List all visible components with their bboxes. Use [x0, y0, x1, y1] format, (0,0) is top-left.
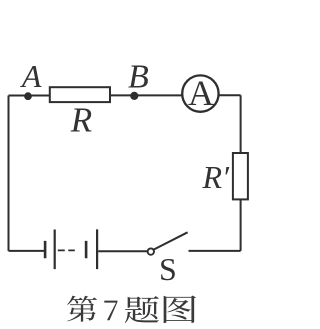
svg-text:R: R [70, 101, 92, 140]
svg-text:A: A [20, 58, 42, 94]
svg-text:S: S [159, 251, 177, 287]
svg-text:A: A [188, 73, 214, 113]
svg-text:B: B [128, 58, 149, 95]
svg-text:R′: R′ [202, 159, 231, 195]
